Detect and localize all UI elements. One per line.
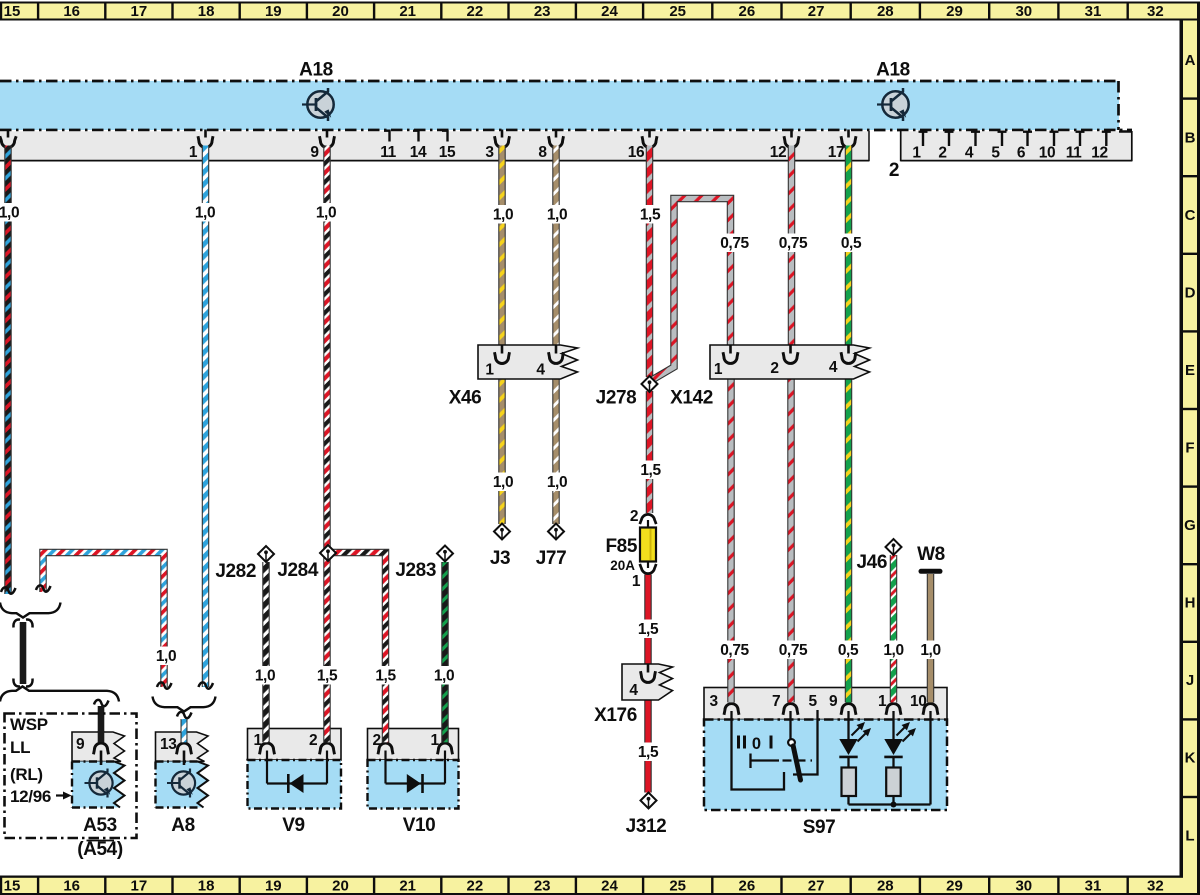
wire: X142 pin1 down to S97 pin3 grey/red [727,364,735,702]
svg-text:25: 25 [669,878,686,895]
wire: branch J284 to V10 pin 2 black/red/white [330,553,386,744]
svg-text:1: 1 [878,693,887,710]
svg-text:J283: J283 [395,560,436,581]
svg-text:1,5: 1,5 [317,668,338,685]
svg-text:12/96: 12/96 [10,787,51,806]
wire end hook (x43 bottom) [36,585,51,591]
svg-text:17: 17 [131,3,148,20]
svg-text:8: 8 [538,144,547,161]
wire: pin 1 blue/white [202,146,210,688]
svg-text:20: 20 [332,3,349,20]
wire: X176 to J312 solid red [644,684,652,793]
svg-text:1,0: 1,0 [0,205,19,222]
connector X46 [478,345,578,379]
svg-text:1,0: 1,0 [195,205,215,222]
brace B3 (collects x164 and x205 wires to A8) [153,697,216,712]
wire label 1,0 (pin8 upper) [542,205,572,224]
svg-text:1,0: 1,0 [493,207,513,224]
wire end hook (x164 bottom) [157,682,172,688]
strip2 stub pin 10 [1050,131,1059,146]
switch unit S97 [704,688,947,811]
svg-text:9: 9 [829,693,838,710]
connector strip 1 (below bus bar) [0,131,869,161]
wire: pin 3 brown/yellow lower (X46 to J3) [498,364,506,524]
svg-text:J77: J77 [536,548,567,569]
svg-text:J46: J46 [856,552,887,573]
diode V10 [368,729,459,809]
wire: pin 12 grey/red to X142 pin2 [788,146,796,347]
strip1 pin 3 [495,130,510,148]
svg-text:0,5: 0,5 [841,235,862,252]
top ruler ticks [1,3,1128,19]
S97 LED1 (pin 9) [839,711,871,768]
S97 pin7 stem [789,711,791,740]
svg-text:4: 4 [829,359,838,376]
svg-text:30: 30 [1015,3,1032,20]
svg-text:4: 4 [536,362,545,379]
wire: pin 17 green/yellow to X142 pin4 [845,146,853,347]
coupling arc bottom (thick wire x23) [13,679,32,687]
svg-text:2: 2 [938,145,946,162]
svg-text:A18: A18 [876,60,910,81]
S97 LED2 (pin 1) [884,711,916,768]
wire: J278 to F85 red/grey [646,391,654,513]
wire stub into V9 pin1 [262,728,270,743]
strip2 stub pin 5 [998,131,1007,146]
svg-text:28: 28 [877,878,894,895]
svg-text:2: 2 [373,732,381,749]
svg-text:23: 23 [534,878,551,895]
svg-text:26: 26 [739,878,756,895]
svg-text:25: 25 [669,3,686,20]
wire stub into S97 pin7 [787,687,795,703]
svg-text:2: 2 [309,732,317,749]
svg-text:V9: V9 [282,815,304,836]
svg-text:31: 31 [1085,878,1102,895]
svg-text:9: 9 [76,736,85,753]
wire label 0,75 (X142 pin1) [716,234,754,253]
S97 bottom bus line [849,711,931,805]
fuse F85 [640,514,656,573]
svg-text:16: 16 [63,3,80,20]
svg-text:11: 11 [1066,145,1082,162]
svg-text:1: 1 [254,732,263,749]
svg-text:H: H [1185,595,1196,612]
svg-text:22: 22 [467,878,484,895]
svg-text:4: 4 [629,682,638,699]
svg-text:V10: V10 [403,815,436,836]
svg-text:0,75: 0,75 [779,642,808,659]
wire: pin 8 brown/white lower (X46 to J77) [552,364,560,524]
wire stub into A53 pin9 [98,731,105,742]
svg-text:4: 4 [965,145,974,162]
strip2 stub pin 11 [1076,131,1085,146]
svg-text:1,0: 1,0 [156,648,176,665]
wire: horizontal run red/white/blue with two legs [43,553,164,688]
svg-text:5: 5 [809,693,818,710]
wire: F85 to X176 solid red [644,575,652,665]
antenna terminal W8 [921,569,940,574]
wire label 1,0 (pin8 lower) [542,473,572,492]
wire stub into S97 pin1 [890,687,898,703]
svg-text:27: 27 [808,878,825,895]
svg-text:12: 12 [1091,145,1107,162]
wire: X142 pin4 down to S97 pin9 green/yellow [845,364,853,702]
arrow 12/96 [56,792,72,800]
svg-text:20: 20 [332,878,349,895]
S97 pin5 internal line [793,710,818,775]
wire label 0,75 (X142 pin2) [774,234,812,253]
splice J284 diamond [320,545,336,561]
wire stub into V10 pin1 [441,728,449,743]
right ruler letters [1184,52,1196,845]
svg-text:1,5: 1,5 [640,207,661,224]
svg-text:18: 18 [198,878,215,895]
bottom ruler ticks [1,878,1128,894]
svg-text:G: G [1184,517,1196,534]
wire label 1,5 (pin16) [635,205,665,224]
svg-text:16: 16 [63,878,80,895]
thick black wire x23 [20,622,27,684]
svg-text:J278: J278 [596,388,637,409]
svg-text:32: 32 [1147,3,1164,20]
svg-text:22: 22 [467,3,484,20]
svg-text:6: 6 [1017,145,1026,162]
wire hook (A8 stub top) [177,712,192,718]
svg-text:S97: S97 [803,817,836,838]
svg-text:15: 15 [4,878,21,895]
wire label 1,5 (above X176) [633,620,663,639]
wire label 1,0 (pin9) [311,203,341,222]
svg-text:1,0: 1,0 [547,207,567,224]
wire label 1,0 (x8) [0,203,24,222]
svg-text:1: 1 [912,145,921,162]
svg-text:9: 9 [310,144,319,161]
wire label 0,5 (S97 pin9) [833,641,863,660]
wire hook (A53 pin9 wire top) [94,700,109,706]
wire: J46 down to S97 pin1 green/white/red [890,555,898,702]
wire label 1,0 (pin1) [190,203,220,222]
ground point J3 diamond [494,524,510,540]
svg-text:1,0: 1,0 [920,642,940,659]
brace B1 (collects x8 and x43 wires) [0,603,61,618]
strip1 pin 17 [841,130,856,148]
svg-text:23: 23 [534,3,551,20]
svg-text:24: 24 [601,878,618,895]
transistor symbol (A53) [85,769,113,798]
svg-text:W8: W8 [917,544,945,565]
wire: branch J278 up-over to X142 pin1 grey/red [651,199,731,381]
S97 junction dot [891,802,897,808]
S97 pin3 internal line [732,711,785,790]
wire label 1,0 (pin3 lower) [488,473,518,492]
strip1 stub pin 14 [413,130,420,142]
svg-text:27: 27 [808,3,825,20]
wire label 1,0 (J282) [250,666,280,685]
strip1 pin (far left, no number) [0,130,16,148]
svg-text:A8: A8 [171,815,195,836]
svg-text:1: 1 [431,732,440,749]
svg-text:1,0: 1,0 [883,642,903,659]
svg-text:16: 16 [628,144,645,161]
control unit A8 [156,732,209,808]
strip2 stub pin 4 [971,131,980,146]
svg-text:X46: X46 [449,388,482,409]
svg-text:A: A [1185,52,1196,69]
wire: W8 down to S97 pin10 brown [927,574,935,702]
wire stub into S97 pin3 [727,687,735,703]
svg-text:0,5: 0,5 [838,642,859,659]
svg-text:1,5: 1,5 [640,462,661,479]
connector X176 [622,664,673,700]
svg-text:1: 1 [714,361,723,378]
diode V9 [248,729,342,809]
svg-text:26: 26 [739,3,756,20]
strip1 pin 8 [549,130,564,148]
WSP dash-dot box [5,714,137,839]
svg-text:21: 21 [399,3,416,20]
S97 switch lever [793,746,800,780]
S97 resistor 2 [886,768,901,797]
WSP text block [10,715,51,806]
strip1 pin 12 [784,130,799,148]
svg-text:J: J [1186,672,1194,689]
svg-text:2: 2 [770,360,778,377]
wire stub into A8 pin13 [181,731,188,742]
transistor symbol (A8) [167,769,195,798]
svg-text:18: 18 [198,3,215,20]
strip2 stub pin 12 [1102,131,1111,146]
svg-text:1,0: 1,0 [547,474,567,491]
svg-text:A18: A18 [299,60,333,81]
wire label 1,0 (pin3 upper) [488,205,518,224]
wire: pin far-left black/blue/red down left edge [4,146,12,595]
coupling arc top (thick wire x23) [13,620,32,628]
svg-text:28: 28 [877,3,894,20]
svg-text:C: C [1185,207,1196,224]
svg-text:1,0: 1,0 [434,668,454,685]
svg-text:F85: F85 [605,536,637,557]
svg-text:J284: J284 [277,560,319,581]
svg-text:J312: J312 [626,816,667,837]
svg-text:1: 1 [485,362,494,379]
svg-text:1,0: 1,0 [493,474,513,491]
top ruler numbers [4,3,1164,20]
strip2 stub pin 1 [919,131,928,146]
wire: A8 stub blue/white [181,719,188,744]
svg-text:5: 5 [991,145,1000,162]
right ruler ticks [1183,99,1197,797]
svg-text:2: 2 [630,508,638,525]
control unit A53 [72,732,125,808]
svg-text:(A54): (A54) [77,839,123,860]
svg-text:(RL): (RL) [10,765,43,784]
splice J278 [642,376,658,392]
wire label 0,5 (X142 pin4) [836,234,866,253]
svg-text:D: D [1185,285,1196,302]
svg-text:LL: LL [10,738,30,757]
svg-text:3: 3 [710,693,719,710]
wire label 0,75 (S97 pin3) [716,641,754,660]
svg-text:19: 19 [265,878,282,895]
svg-text:10: 10 [1039,145,1055,162]
strip1 pin 1 [198,130,213,148]
strip1 pin 9 [320,130,335,148]
transistor symbol right (in A18 bar) [877,88,909,121]
wire: J282 black/white down to V9 pin1 [262,562,270,743]
svg-text:17: 17 [131,878,148,895]
svg-text:WSP: WSP [10,715,48,734]
ground point J312 diamond [641,793,657,809]
wire stub into S97 pin10 [927,687,935,703]
svg-text:L: L [1185,828,1194,845]
wire end hook (x8 bottom) [1,587,16,593]
wire label 0,75 (S97 pin7) [774,641,812,660]
wire label 1,5 (V10 pin2) [371,666,401,685]
svg-text:13: 13 [160,736,177,753]
bottom ruler numbers [4,878,1164,895]
svg-text:X142: X142 [670,388,713,409]
right ruler band [1180,19,1200,894]
wire: pin 8 brown/white upper [552,146,560,347]
S97 contact T-bar with dashes [751,754,813,769]
svg-text:24: 24 [601,3,618,20]
wire end hook (x205 bottom) [199,682,214,688]
strip2 stub pin 2 [945,131,954,146]
svg-text:E: E [1185,362,1195,379]
wire: pin 9 black/red/white down to V9 pin 2 [323,146,331,744]
svg-text:21: 21 [399,878,416,895]
svg-text:1: 1 [632,573,641,590]
S97 resistor 1 [842,768,857,797]
svg-text:2: 2 [889,160,899,181]
S97 switch pivot [788,739,795,746]
svg-text:29: 29 [946,3,963,20]
wire label 1,0 (S97 pin1) [879,641,909,660]
svg-text:1,0: 1,0 [316,205,336,222]
svg-text:X176: X176 [594,705,637,726]
svg-text:3: 3 [485,144,494,161]
wire: pin 3 brown/yellow upper [498,146,506,347]
svg-text:11: 11 [380,144,396,161]
svg-text:F: F [1185,440,1194,457]
svg-text:0: 0 [752,735,761,753]
wire stub into V10 pin2 [382,728,390,743]
wire label 1,0 (S97 pin10) [916,641,946,660]
connector strip 2 (pin row 2) [901,131,1133,161]
svg-text:19: 19 [265,3,282,20]
wire: X142 pin2 down to S97 pin7 grey/red [787,364,795,702]
svg-text:1,5: 1,5 [375,668,396,685]
svg-text:1,0: 1,0 [255,668,275,685]
strip1 pin 16 [642,130,657,148]
S97 switch position marks II 0 I [737,736,773,749]
transistor symbol left (in A18 bar) [302,88,334,121]
strip1 stub pin 11 [384,130,391,142]
bus bar A18 (blue band) [0,81,1132,130]
svg-text:30: 30 [1015,878,1032,895]
wire label 1,0 (x164 leg) [151,647,181,666]
svg-text:17: 17 [828,144,844,161]
svg-text:10: 10 [910,693,926,710]
svg-text:1,5: 1,5 [638,744,659,761]
svg-text:J3: J3 [490,548,510,569]
wire stub into V9 pin2 [323,728,331,743]
wire label 1,5 (V9 pin2) [312,666,342,685]
brace B2 (fans out to A53) [0,687,119,702]
splice J283 diamond [437,546,453,562]
svg-text:J282: J282 [215,561,256,582]
svg-text:14: 14 [410,144,427,161]
thick black wire to A53 pin 9 [98,706,105,744]
svg-text:B: B [1185,130,1196,147]
wire stub into S97 pin9 [845,687,853,703]
svg-text:7: 7 [772,693,780,710]
splice J282 diamond [258,546,274,562]
wire label 1,5 (below X176) [633,743,663,762]
wire: pin 16 red/grey down to J278 [646,146,654,378]
svg-text:0,75: 0,75 [720,642,749,659]
svg-text:20A: 20A [610,558,635,573]
svg-text:15: 15 [439,144,456,161]
strip1 stub pin 15 [442,130,449,142]
svg-text:A53: A53 [83,815,117,836]
connector X142 [710,345,870,379]
splice J46 diamond [886,539,902,555]
svg-text:15: 15 [4,3,21,20]
svg-text:0,75: 0,75 [779,235,808,252]
svg-text:1: 1 [189,144,198,161]
svg-text:31: 31 [1085,3,1102,20]
svg-text:K: K [1185,750,1196,767]
wire label 1,0 (J283) [429,666,459,685]
svg-text:0,75: 0,75 [720,235,749,252]
ground point J77 diamond [548,524,564,540]
svg-text:32: 32 [1147,878,1164,895]
wire label 1,5 (above F85) [636,461,666,480]
bottom ruler band [0,876,1200,895]
wire: J283 black/green down to V10 pin1 [441,562,449,743]
svg-text:1,5: 1,5 [638,621,659,638]
svg-text:29: 29 [946,878,963,895]
svg-text:12: 12 [770,144,786,161]
top ruler band [0,2,1200,21]
strip2 stub pin 6 [1023,131,1032,146]
